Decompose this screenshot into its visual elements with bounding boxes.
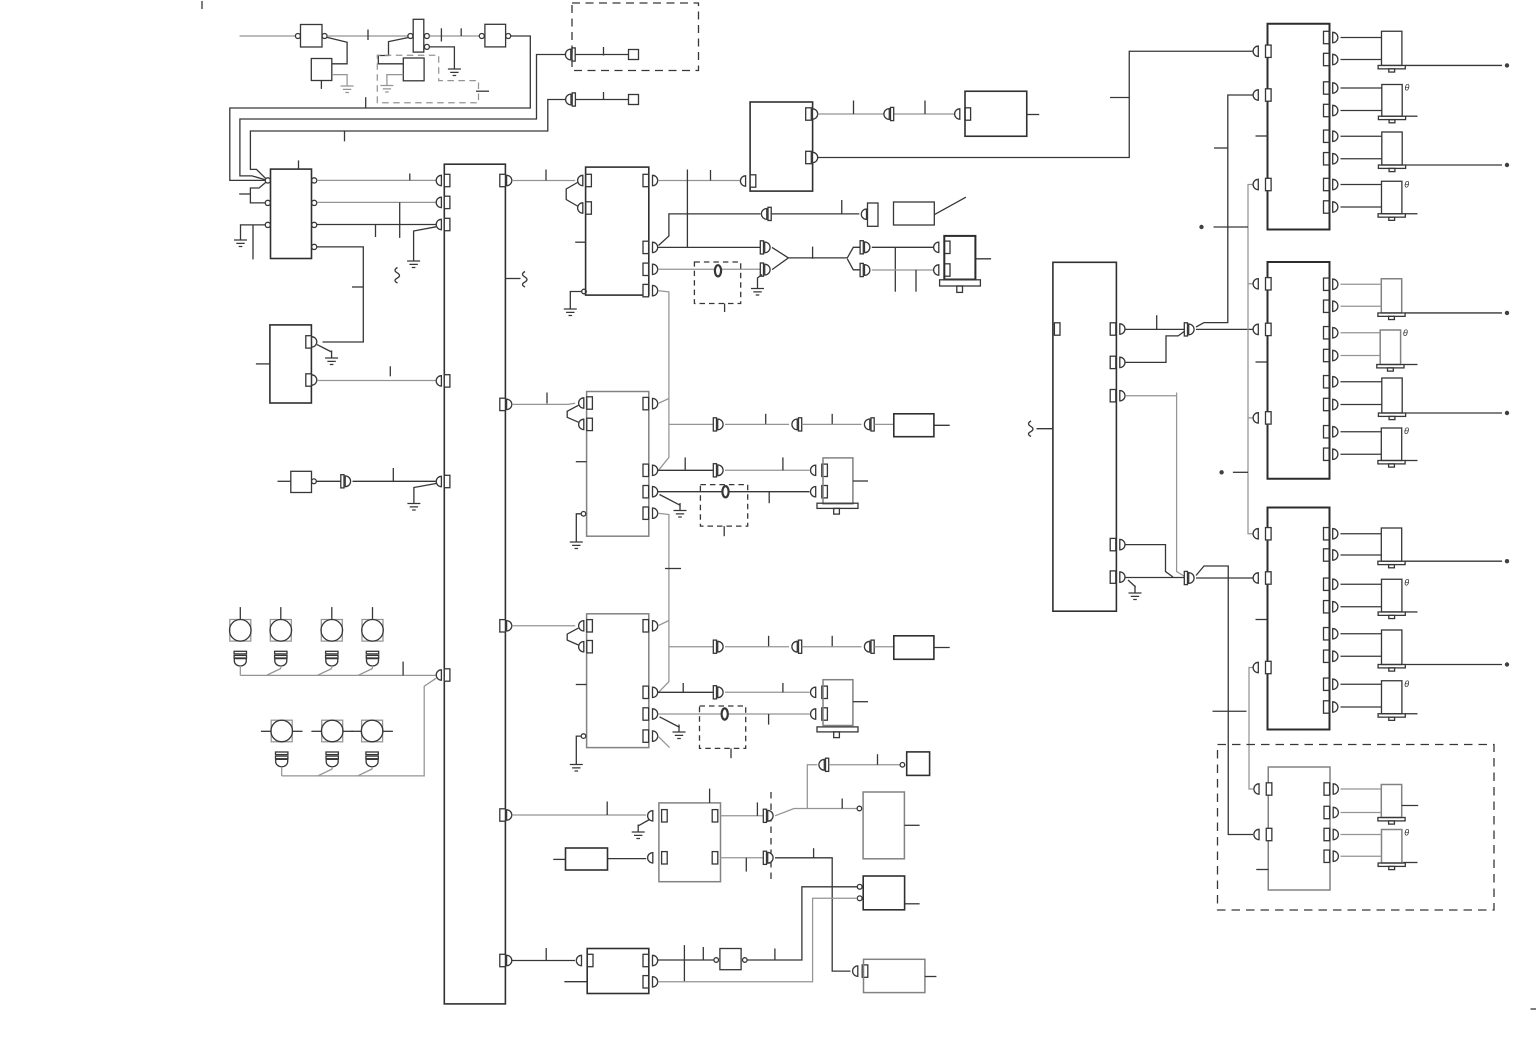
pin driver3 right	[1324, 549, 1330, 561]
ground	[407, 496, 420, 510]
wire box7 pin1 to diode box	[658, 959, 714, 961]
igniter / coil body	[944, 236, 975, 280]
wire ECU1 pin4 down to ECU2	[658, 291, 669, 471]
wire to coil connectors	[788, 247, 860, 258]
connector driver2 left	[1253, 279, 1258, 289]
inline connector	[760, 241, 770, 254]
injector driver driver2	[1268, 262, 1330, 479]
ground	[673, 725, 686, 739]
wire pair1 branch up to driver1	[1196, 95, 1253, 327]
wire tick	[603, 47, 605, 56]
bus left connectors	[436, 175, 441, 185]
connector driver1 left	[1253, 179, 1258, 189]
bottom box body	[864, 959, 925, 992]
ECU2 left pin squares	[587, 397, 593, 409]
connector driver3 left	[1253, 662, 1258, 672]
frame mark	[201, 1, 203, 9]
ignition switch body	[894, 202, 935, 225]
inline connector	[566, 93, 576, 106]
wire bus D2 to ECU2	[512, 403, 575, 404]
injector coil L9	[1378, 528, 1405, 568]
wire tick	[710, 170, 712, 181]
ECU1 left connectors	[578, 175, 583, 185]
sensor box pin circle	[857, 806, 862, 811]
O2 sensor box	[894, 414, 934, 437]
wire tick	[915, 270, 917, 292]
ground	[341, 79, 354, 93]
wire tick	[702, 947, 704, 960]
pin driver1 right	[1324, 153, 1330, 165]
wire tick	[546, 393, 548, 404]
ECU left pin square	[1054, 323, 1060, 335]
wire K2 pin1 to ground	[317, 345, 332, 352]
TPS left connector	[648, 811, 653, 821]
wire ECU2 pin2 to EGR VSV	[658, 469, 714, 471]
relay K1 box	[271, 169, 312, 258]
wire L9 long lead	[1405, 560, 1502, 562]
wire tick crossing	[683, 945, 685, 982]
ECU3 left connectors	[579, 621, 584, 631]
check connector pin circle	[900, 763, 905, 768]
stub right bottom box	[925, 976, 937, 978]
O2 sensor row junction	[669, 423, 714, 425]
bottom box connector	[853, 966, 858, 976]
wire pins to L14	[1341, 835, 1382, 857]
injector coil L1	[1378, 31, 1405, 72]
pin driver3 right	[1324, 701, 1330, 713]
injector coil L4	[1378, 181, 1405, 220]
wire vertical crossing	[686, 170, 688, 248]
inline connector	[760, 263, 770, 276]
VSV pin squares	[822, 686, 828, 698]
check connector box	[907, 752, 930, 776]
inline connector	[713, 640, 723, 653]
wire to igniter top	[872, 246, 933, 248]
wire row segment	[874, 423, 894, 425]
ground	[674, 503, 687, 517]
wire K1-R2 to bus	[317, 201, 436, 203]
ground	[325, 351, 338, 365]
wire L4 stub	[1405, 213, 1417, 215]
inline connector	[713, 418, 723, 431]
wire ECU1 pin3 to coil secondary	[658, 268, 760, 270]
injector driver driver4	[1268, 767, 1330, 890]
wire tick	[665, 568, 681, 570]
wire pins to L4	[1341, 185, 1382, 208]
ground	[570, 535, 583, 549]
wire tick	[545, 948, 547, 961]
ECU module 2 box	[587, 392, 649, 537]
pin driver2 right	[1324, 327, 1330, 339]
TPS corner pin squares	[662, 810, 668, 822]
bus right connectors	[507, 175, 512, 185]
bus right pin squares	[500, 174, 506, 186]
wire diagonal joint	[317, 669, 332, 676]
wire K1 pin3 to ground	[241, 225, 266, 233]
ECU2 right pin squares	[643, 397, 649, 409]
wire pin3 shield to ground	[660, 717, 680, 727]
ground	[407, 254, 420, 268]
wire tick	[841, 799, 843, 809]
stub left NF	[278, 480, 291, 482]
wire pair2 branch down to driver4	[1196, 566, 1253, 835]
connector driver1 left	[1253, 46, 1258, 56]
injector lamp row1 #1	[230, 607, 252, 675]
terminal square S2	[629, 95, 639, 105]
inline connector	[792, 418, 802, 431]
tick below dashed box	[723, 526, 725, 536]
svg-text:θ: θ	[1403, 328, 1408, 338]
ground	[1129, 586, 1142, 600]
wire L6 stub	[1404, 364, 1418, 366]
jumper bracket	[566, 183, 577, 207]
injector coil L5	[1378, 279, 1405, 320]
tick below dashed box	[724, 304, 726, 313]
wire TPS row2 to pair	[721, 857, 764, 859]
wire ECU3 pin2 to VSV	[658, 691, 714, 693]
wire tick to link	[1233, 471, 1248, 473]
jumper bracket	[567, 628, 578, 645]
EC1 connector	[955, 109, 960, 119]
wire bus D1 to ECU1	[512, 180, 575, 182]
wire pins to L1	[1341, 38, 1382, 60]
dashed harness separator	[770, 792, 772, 882]
EGR base tab	[834, 508, 840, 514]
junction pair1	[1184, 323, 1194, 336]
stub and squiggle right of bus	[505, 278, 520, 280]
wire pin3 shield to ground	[660, 495, 681, 506]
pin circle U1 right	[322, 34, 327, 39]
wire B1 to ground	[387, 75, 403, 78]
wire to ground	[576, 736, 581, 757]
stub left box7	[564, 981, 587, 983]
wire diagonal joint	[318, 769, 333, 776]
noise filter box	[291, 471, 312, 492]
stub left ECU2	[576, 461, 587, 463]
pin circle U2 right	[506, 34, 511, 39]
pin driver2 right	[1324, 398, 1330, 410]
wire tick	[768, 714, 770, 725]
pin driver2 right	[1324, 376, 1330, 388]
wire diagonal joint	[358, 669, 373, 676]
box7 right pin squares	[643, 954, 649, 966]
ign relay connectors right	[813, 109, 818, 119]
pin driver1 right	[1324, 201, 1330, 213]
coil base flange	[940, 280, 981, 286]
wire L5 long lead	[1405, 312, 1502, 314]
net dot	[1219, 470, 1223, 474]
dashed shield box inner	[377, 55, 478, 102]
wire tick	[1156, 315, 1158, 329]
svg-text:θ: θ	[1404, 179, 1409, 189]
wire hang junction	[894, 247, 896, 291]
pin driver2 right	[1324, 426, 1330, 438]
wire tick	[831, 636, 833, 647]
inline connector	[864, 640, 874, 653]
wire L8 stub	[1405, 460, 1417, 462]
wire pins to L2	[1341, 88, 1382, 111]
diode box	[720, 949, 741, 970]
wire row segment	[874, 646, 894, 648]
wire tick	[375, 225, 377, 237]
dashed condenser box	[700, 706, 746, 748]
wire driver1-driver2-driver3 link	[1248, 185, 1253, 534]
injector coil L3	[1378, 132, 1405, 172]
relay K2 box	[270, 325, 312, 403]
wire to igniter bottom	[872, 269, 933, 271]
logic box A2	[311, 59, 332, 81]
injector coil L11	[1378, 630, 1405, 671]
ign relay pin squares left	[750, 175, 756, 187]
wire branch low	[847, 259, 860, 270]
tick inside driver3	[1256, 619, 1268, 621]
ECU module 1 box	[586, 167, 649, 295]
ECU1 bottom-left pin circle	[582, 289, 587, 294]
K2 pin square 2	[306, 374, 312, 386]
O2 sensor 2 box	[894, 636, 934, 660]
wire row segment	[802, 646, 862, 648]
wire tick	[367, 30, 369, 41]
ECU1 right connectors	[653, 175, 658, 185]
wire tick	[768, 636, 770, 647]
net dot	[1199, 225, 1203, 229]
wire tick	[1214, 147, 1228, 149]
ground	[632, 825, 645, 839]
stub right of coil	[975, 258, 991, 260]
svg-text:θ: θ	[1404, 679, 1409, 689]
O2 sensor row2 junction	[669, 646, 714, 648]
stub left ECU3	[576, 684, 587, 686]
stub right O2	[934, 424, 950, 426]
TPS left connector 2	[648, 853, 653, 863]
wire L2 stub	[1406, 115, 1418, 117]
injector driver driver3	[1268, 508, 1330, 730]
pin driver3 right	[1324, 628, 1330, 640]
wire row segment	[802, 423, 862, 425]
wire relay D1 to EC1	[818, 113, 955, 115]
wire tick	[877, 754, 879, 765]
wire X1 pin2 to ground	[429, 47, 454, 62]
squiggle input	[1029, 421, 1034, 437]
injector coil L10	[1378, 579, 1405, 618]
pin driver3 right	[1324, 578, 1330, 590]
wire L13 stub	[1402, 805, 1419, 807]
igniter connector top	[934, 242, 939, 252]
diode box pin circle left	[714, 958, 719, 963]
wire tick	[409, 174, 411, 181]
wire tick	[440, 28, 442, 41]
jumper bracket	[567, 405, 578, 422]
stub below A2	[320, 81, 322, 89]
wire diagonal joint	[358, 769, 373, 776]
wire riser to row2 chain	[282, 678, 436, 776]
wire tick	[402, 662, 404, 676]
wire to ignition switch	[771, 213, 859, 215]
wire diagonal to junction and row	[775, 809, 857, 816]
wire ECU1 pin2 upper branch to ignition switch row	[659, 214, 761, 246]
pin driver4 right	[1324, 828, 1330, 840]
wire tick	[460, 28, 462, 36]
wire tick	[745, 858, 747, 872]
wire pair1 to driver2	[1196, 328, 1253, 330]
sensor box top right	[863, 792, 904, 859]
junction pair2	[1184, 571, 1194, 584]
wire ECU3 pin1 from riser	[658, 621, 669, 626]
svg-text:θ: θ	[1404, 426, 1409, 436]
ECU3 left pin squares	[587, 620, 593, 632]
ECU3 right pin squares	[643, 620, 649, 632]
wire C from connector row3 to relay K1	[250, 100, 566, 179]
tick inside driver4	[1256, 869, 1268, 871]
injector lamp row1 #2	[270, 607, 292, 668]
pin driver4 right	[1324, 806, 1330, 818]
pin circle U2 left	[479, 34, 484, 39]
coil base tab	[957, 286, 963, 292]
wire ECU pin1 to junction pair1	[1125, 328, 1185, 330]
injector coil L8	[1378, 428, 1405, 467]
wire ECU2 pin3 through condenser	[658, 491, 810, 493]
wire tick	[765, 414, 767, 425]
wire box7 pin2 to R5	[658, 898, 857, 982]
ground	[234, 233, 247, 247]
wire bus pin3 branch to ground	[414, 227, 436, 254]
wire NF to connector	[316, 480, 341, 482]
stub left K2	[256, 363, 270, 365]
logic box B1	[403, 58, 424, 81]
wire input to U1	[240, 35, 296, 37]
injector coil L7	[1378, 378, 1405, 420]
box7 left pin square	[587, 954, 593, 966]
wire ECU pin5 to pair2	[1125, 577, 1185, 579]
wire tick	[545, 170, 547, 181]
K2 pin square 1	[306, 336, 312, 348]
relay R5 box	[863, 876, 904, 910]
wire to ground	[576, 514, 581, 535]
ignition switch connector	[861, 209, 866, 219]
wire tick	[239, 193, 250, 195]
inline connector	[819, 758, 829, 771]
ignition relay box	[750, 102, 813, 191]
wire tick	[682, 683, 684, 692]
pin driver1 right	[1324, 104, 1330, 116]
wire tick to link	[1214, 226, 1249, 228]
inline connector	[341, 475, 351, 488]
injector coil L6	[1377, 330, 1404, 371]
wire pins to L13	[1341, 789, 1382, 813]
wire to ground	[414, 484, 436, 497]
pin circle X1 right1	[424, 34, 429, 39]
pin circle X1 left	[408, 34, 413, 39]
wire pins to L6	[1341, 333, 1381, 356]
injector coil L13	[1378, 785, 1405, 825]
connector driver2 left	[1253, 324, 1258, 334]
wire driver3-driver4 link	[1249, 668, 1253, 790]
pin driver1 right	[1324, 178, 1330, 190]
dashed enclosure top-right	[572, 3, 699, 71]
K2 connector 1	[312, 337, 317, 347]
wire TPS row2 to bottom box	[775, 858, 851, 971]
ground	[380, 78, 393, 92]
wire ECU pin2 riser to pair1	[1125, 331, 1185, 363]
wire resistor to TPS	[608, 858, 647, 860]
EGR connector lower	[811, 487, 816, 497]
inline connector	[864, 418, 874, 431]
diode box pin circle right	[743, 958, 748, 963]
EGR VSV body	[823, 458, 853, 504]
wire relay D2 long route to driver1	[818, 51, 1253, 157]
connector driver4 left	[1254, 829, 1259, 839]
wire ECU1 pin2 to coil primary	[658, 246, 760, 248]
wire diagonal joint	[266, 669, 281, 676]
bus block box	[444, 164, 505, 1004]
wire tick	[606, 802, 608, 816]
wire L7 long lead	[1406, 412, 1502, 414]
wire tick	[782, 457, 784, 470]
pin circle X1 right2	[424, 44, 429, 49]
logic box U2	[485, 24, 506, 47]
wire ECU pin3 riser to pair2	[1125, 393, 1185, 578]
wire tick	[782, 683, 784, 692]
edge mark bottom right	[1531, 1008, 1536, 1010]
squiggle standalone	[395, 268, 400, 284]
wire lamp chain row1	[240, 674, 435, 676]
wire tick	[774, 949, 776, 961]
svg-text:θ: θ	[1404, 577, 1409, 587]
pin circle NF	[312, 479, 317, 484]
wire shield to ground	[758, 275, 763, 282]
injector lamp row2 #1	[261, 720, 303, 776]
stub right sensor box	[904, 824, 919, 826]
K1 pin circles left	[265, 178, 270, 183]
ground	[448, 62, 461, 76]
pin driver1 right	[1324, 130, 1330, 142]
wire U2 output loop to relay K1 (wire A)	[230, 36, 531, 180]
wire pin2 hang	[399, 202, 401, 238]
bottom box pin square	[862, 965, 868, 977]
terminal square S1	[629, 50, 639, 60]
ignition switch bar	[868, 203, 879, 226]
wire ECU1 pin1 to ignition relay	[658, 180, 740, 182]
wire TPS connector to ground	[638, 820, 649, 826]
wire segment	[725, 691, 810, 693]
wire tick	[389, 366, 391, 376]
stub squiggle to ECU	[1037, 428, 1053, 430]
wire ECU2 pin4 down to ECU3	[658, 513, 669, 692]
svg-text:θ: θ	[1404, 828, 1409, 838]
injector coil L14	[1378, 830, 1405, 870]
inline connector	[761, 207, 771, 220]
wire to check connector	[829, 764, 900, 766]
stub right VSV	[853, 701, 868, 703]
wire TPS row1 to pair	[721, 815, 764, 817]
wire to bus	[353, 480, 436, 482]
logic box U1	[301, 25, 323, 48]
VSV base tab	[834, 732, 840, 738]
pin driver4 right	[1324, 783, 1330, 795]
wire to ground	[570, 292, 581, 302]
wire L1 long lead	[1405, 64, 1502, 66]
injector driver driver1	[1268, 24, 1330, 230]
wire U1 to X1	[327, 35, 408, 37]
wire to terminal S1	[575, 54, 628, 56]
pin driver1 right	[1324, 31, 1330, 43]
capacitor ellipse	[722, 708, 728, 719]
box7 right connectors	[653, 955, 658, 965]
ECU2 right connectors	[653, 398, 658, 408]
EGR connector	[811, 465, 816, 475]
wire segment	[725, 469, 810, 471]
wire tick	[1110, 97, 1129, 99]
